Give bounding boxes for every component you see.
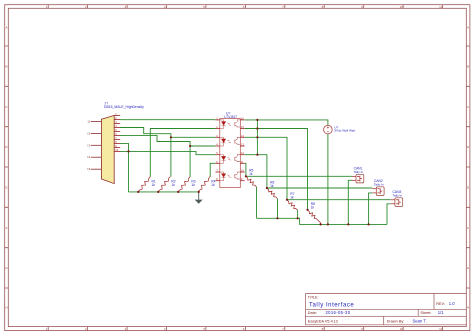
wire node A to CAN1 tip — [246, 175, 352, 177]
junction J5 at (198.7,191.9) — [198, 191, 200, 193]
svg-text:A: A — [467, 25, 469, 29]
wire U1.16 to wall wart plus — [245, 120, 328, 126]
junction J18 at (320.6,224.4) — [320, 223, 322, 225]
connector CAN1 Tally In — [352, 167, 364, 183]
junction J14 at (287,199.7) — [286, 199, 288, 201]
resistor R8 — [308, 210, 319, 221]
junction J4 at (178.2,191.9) — [177, 191, 179, 193]
opto-isolator U1 LTV-847 — [215, 111, 244, 187]
junction J19 at (327.9,224.4) — [327, 223, 329, 225]
svg-text:1k: 1k — [191, 183, 195, 187]
junction J1 at (128.5,151.4) — [127, 150, 129, 152]
resistor R3 — [178, 177, 190, 192]
wire CAN2 sleeve to return bus — [369, 193, 373, 225]
svg-text:Drawn By:: Drawn By: — [387, 320, 405, 324]
svg-text:E: E — [467, 186, 469, 190]
wire node B to CAN2 tip — [267, 187, 372, 189]
svg-text:Tally Interface: Tally Interface — [309, 302, 354, 308]
svg-text:B: B — [5, 65, 7, 69]
junction J9 at (257.4,128.5) — [256, 127, 258, 129]
svg-text:1/1: 1/1 — [438, 310, 444, 315]
svg-text:9Vdc Wall Wart: 9Vdc Wall Wart — [334, 129, 355, 133]
wire U1.11 to R5 — [245, 163, 246, 176]
svg-text:TITLE:: TITLE: — [308, 296, 319, 300]
svg-text:13: 13 — [87, 143, 91, 147]
svg-text:EasyEDA V5.4.12: EasyEDA V5.4.12 — [308, 320, 338, 324]
junction J3 at (158.2,191.9) — [157, 191, 159, 193]
wire U1.12 to R6 — [245, 155, 267, 188]
wire R4 to U1.6 — [210, 163, 215, 177]
wire DB15.2 to U1.1 — [120, 119, 215, 121]
svg-text:Tally In: Tally In — [354, 170, 364, 174]
svg-text:DB15_MALE_HighDensity: DB15_MALE_HighDensity — [104, 105, 144, 109]
svg-text:10: 10 — [400, 5, 404, 9]
svg-text:1k: 1k — [171, 183, 175, 187]
wire R2 riser — [170, 137, 172, 176]
junction J11 at (257.4,154.7) — [256, 154, 258, 156]
connector CAN2 Tally In — [372, 179, 384, 195]
title block — [306, 294, 467, 325]
wire wall wart minus to return bus — [327, 134, 329, 225]
wire node C to CAN3 tip — [287, 199, 391, 201]
svg-text:11: 11 — [439, 5, 442, 9]
svg-text:A: A — [5, 25, 7, 29]
wire U1.15 to R8 — [245, 129, 308, 210]
resistor R5 — [246, 176, 257, 187]
svg-text:15: 15 — [87, 167, 91, 171]
wire DB15.8 to ground bus — [120, 143, 129, 192]
junction J2 at (138.3,191.9) — [137, 191, 139, 193]
junction J7 at (190.1,146) — [189, 145, 191, 147]
svg-text:H: H — [5, 306, 7, 310]
svg-text:1.0: 1.0 — [449, 301, 455, 306]
wire CAN1 sleeve to return bus — [348, 180, 352, 224]
svg-text:F: F — [6, 226, 8, 230]
wire R7 drop — [297, 210, 299, 218]
connector J? DB15_MALE_HighDensity — [87, 101, 144, 183]
svg-text:LTV-847: LTV-847 — [224, 115, 237, 119]
junction J20 at (348.3,224.4) — [347, 223, 349, 225]
junction J13 at (266.9,188) — [266, 187, 268, 189]
svg-text:1k: 1k — [270, 184, 274, 188]
svg-text:2016-05-30: 2016-05-30 — [326, 310, 351, 315]
svg-text:12: 12 — [87, 131, 91, 135]
svg-text:REV:: REV: — [436, 302, 445, 306]
resistor R4 — [198, 177, 210, 192]
svg-text:10: 10 — [400, 327, 404, 331]
svg-text:14: 14 — [87, 155, 91, 159]
svg-text:E: E — [5, 186, 7, 190]
svg-text:B: B — [467, 65, 469, 69]
wire vertical rail — [256, 120, 258, 155]
wire DB15.10 to U1.5 — [120, 151, 215, 154]
power source U? 9Vdc Wall Wart — [324, 125, 333, 134]
junction J6 at (170.9,137.3) — [170, 136, 172, 138]
wire — [318, 220, 321, 224]
wire R5 drop — [256, 187, 258, 218]
wire R1 to U1.2 — [150, 129, 215, 177]
svg-text:1k: 1k — [311, 206, 315, 210]
svg-text:Tally In: Tally In — [374, 182, 384, 186]
svg-text:11: 11 — [439, 327, 442, 331]
wire R6 drop — [277, 199, 279, 219]
wire R3 riser — [189, 146, 191, 177]
svg-text:Tally In: Tally In — [393, 193, 403, 197]
wire U1.14 to R7 — [245, 137, 287, 199]
junction J17 at (297.6,218.3) — [297, 217, 299, 219]
svg-text:Sheet:: Sheet: — [420, 311, 431, 315]
junction J15 at (307.5,209.8) — [306, 209, 308, 211]
svg-text:1k: 1k — [290, 196, 294, 200]
svg-text:Date:: Date: — [308, 311, 317, 315]
connector CAN3 Tally In — [391, 190, 403, 206]
junction J8 at (257.4,119.9) — [256, 119, 258, 121]
wire ground bus — [129, 191, 199, 193]
wire DB15.4 to U1.3 — [120, 128, 215, 138]
junction J10 at (257.4,137.3) — [256, 136, 258, 138]
svg-text:Sean T.: Sean T. — [413, 319, 427, 324]
junction J16 at (277.5,218.3) — [276, 217, 278, 219]
svg-text:1k: 1k — [152, 183, 156, 187]
svg-text:H: H — [467, 306, 469, 310]
resistor R7 — [287, 200, 298, 211]
wire DB15.6 to U1.4 — [120, 135, 215, 146]
svg-text:11: 11 — [87, 120, 90, 124]
junction J12 at (245.9,176.3) — [245, 175, 247, 177]
resistor R1 — [138, 177, 150, 192]
wire CAN3 sleeve to return bus — [387, 204, 391, 225]
resistor R6 — [267, 188, 278, 199]
svg-text:1k: 1k — [249, 172, 253, 176]
svg-text:1k: 1k — [211, 183, 215, 187]
svg-text:F: F — [467, 226, 469, 230]
wire return bus — [257, 218, 388, 224]
ground — [198, 192, 200, 200]
resistor R2 — [158, 177, 170, 192]
junction J21 at (368.6,224.4) — [368, 223, 370, 225]
